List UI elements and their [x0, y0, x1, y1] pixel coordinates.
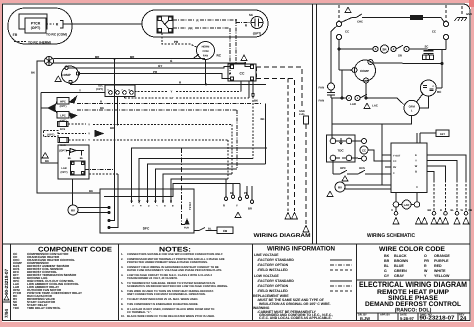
svg-text:Y: Y: [88, 138, 90, 142]
svg-text:PR: PR: [188, 27, 193, 31]
svg-text:Y OUT: Y OUT: [393, 154, 401, 157]
left rail: [41, 93, 58, 164]
svg-text:THIS COMPONENT IS ENERGIZED IN: THIS COMPONENT IS ENERGIZED IN HEATING M…: [127, 303, 199, 306]
svg-text:GY: GY: [170, 96, 174, 100]
svg-text:TDC: TDC: [337, 149, 344, 153]
svg-text:24: 24: [460, 316, 467, 322]
svg-text:R: R: [370, 61, 372, 64]
svg-text:GND: GND: [466, 13, 472, 16]
svg-text:RV: RV: [393, 166, 397, 169]
svg-text:5.: 5.: [121, 282, 124, 285]
svg-text:WIRE COLOR CODE: WIRE COLOR CODE: [379, 246, 446, 253]
svg-text:(OPT): (OPT): [60, 171, 67, 174]
table dividers: [118, 244, 120, 321]
node bracket: [60, 21, 63, 29]
svg-text:APP. BY: APP. BY: [380, 314, 390, 317]
TDC term2 down: [117, 97, 119, 125]
wire down from PR node: [229, 28, 231, 75]
svg-text:HPC: HPC: [340, 167, 346, 170]
RV feed from LAC box bottom: [72, 179, 74, 205]
svg-text:TDC: TDC: [13, 306, 20, 310]
svg-text:Y: Y: [415, 160, 417, 163]
wire R PR: [80, 74, 230, 79]
svg-text:(OPT): (OPT): [60, 105, 67, 108]
svg-text:BL: BL: [384, 264, 390, 268]
PTCR option oval: [8, 8, 72, 44]
svg-text:-FIELD INSTALLED: -FIELD INSTALLED: [257, 289, 288, 293]
svg-text:DCS: DCS: [60, 128, 66, 131]
RC run capacitor: [193, 42, 215, 85]
svg-text:Y: Y: [88, 123, 90, 127]
CC coil: [362, 139, 367, 144]
TDC term3 elbow to GY row: [124, 97, 126, 99]
CHC crankcase line: [341, 18, 352, 23]
svg-text:RC: RC: [217, 54, 222, 58]
field line voltage bold dashed A to GND lug: [256, 67, 306, 224]
board pin wires: [417, 155, 466, 212]
svg-text:BK: BK: [45, 159, 49, 163]
wiring information table: [253, 246, 352, 321]
svg-text:BR: BR: [110, 126, 114, 130]
svg-text:BK: BK: [31, 71, 35, 75]
svg-text:R: R: [223, 205, 225, 208]
svg-text:PR: PR: [424, 259, 429, 263]
wire OFM left BK down: [37, 61, 100, 193]
svg-text:BL: BL: [208, 228, 212, 231]
wire color code table: [357, 246, 471, 280]
svg-text:G: G: [384, 269, 387, 273]
svg-text:BK: BK: [254, 99, 258, 103]
field flag triangles: [393, 218, 469, 225]
svg-text:C: C: [350, 69, 352, 72]
PTCR box: [25, 18, 46, 33]
svg-text:HPC: HPC: [60, 101, 66, 104]
svg-text:3.: 3.: [121, 266, 124, 269]
DFT sensor: [417, 133, 436, 143]
field terminals right: [394, 212, 468, 216]
start relay option oval: [142, 10, 268, 75]
LPC box: [57, 110, 237, 119]
warning triangle top: [345, 7, 351, 12]
svg-text:SC: SC: [249, 13, 254, 17]
RC run cap right: [419, 80, 436, 108]
svg-text:90-23218-07: 90-23218-07: [420, 316, 455, 322]
svg-text:CONNECTORS SUITABLE FOR USE WI: CONNECTORS SUITABLE FOR USE WITH COPPER …: [127, 253, 223, 256]
svg-text:TSTAT: TSTAT: [189, 202, 192, 210]
svg-text:HCS: HCS: [359, 167, 365, 170]
svg-text:HERM: HERM: [202, 46, 210, 49]
wire OFM G to CC: [54, 63, 250, 67]
svg-text:CC: CC: [362, 148, 366, 152]
svg-text:BL: BL: [451, 209, 455, 212]
svg-text:PR: PR: [469, 209, 473, 212]
OFM fan motor: [37, 57, 250, 194]
svg-text:BR: BR: [384, 259, 390, 263]
warning triangle: [55, 76, 61, 82]
svg-text:DFC: DFC: [143, 227, 150, 231]
svg-text:RATED FUSE DISCONNECT. VOLTAGE: RATED FUSE DISCONNECT. VOLTAGE AND PHASE…: [127, 269, 222, 272]
svg-text:7.: 7.: [121, 298, 124, 301]
svg-text:TO RC (COM): TO RC (COM): [46, 33, 67, 37]
svg-text:BL: BL: [68, 157, 72, 160]
svg-text:WIRING SCHEMATIC: WIRING SCHEMATIC: [367, 233, 415, 239]
svg-text:GY: GY: [158, 64, 162, 68]
wire Y into TDC: [41, 92, 105, 94]
svg-text:LPC: LPC: [60, 115, 65, 118]
svg-text:4.: 4.: [121, 274, 124, 277]
wire PTCR lower dash: [14, 41, 27, 43]
svg-text:(OPT): (OPT): [253, 32, 261, 36]
table top line: [3, 243, 471, 245]
left margin rotated drawing number: [4, 269, 9, 318]
svg-text:BLUE: BLUE: [394, 264, 404, 268]
svg-text:Y: Y: [88, 132, 90, 136]
svg-text:LAR: LAR: [350, 102, 356, 106]
ground symbol: [455, 18, 468, 22]
svg-text:-FACTORY STANDARD: -FACTORY STANDARD: [257, 279, 294, 283]
svg-text:LOW VOLTAGE: LOW VOLTAGE: [254, 274, 279, 278]
wire down from R node: [235, 20, 237, 63]
svg-text:O: O: [424, 254, 427, 258]
SC start capacitor: [251, 17, 263, 29]
svg-text:LAR: LAR: [404, 204, 410, 207]
DFC board: [100, 189, 194, 233]
svg-text:PROTECTED UNDER PRIMARY SINGLE: PROTECTED UNDER PRIMARY SINGLE PHASE CON…: [127, 261, 208, 264]
svg-text:RED: RED: [434, 264, 442, 268]
drop to RC: [441, 50, 443, 89]
svg-text:R: R: [100, 100, 102, 104]
svg-text:TRANSFORMER 24 VOLT, 40 VA MIN: TRANSFORMER 24 VOLT, 40 VA MIN'D.: [127, 277, 178, 280]
L1 feed dashed: [338, 5, 340, 21]
svg-text:GRAY: GRAY: [394, 274, 405, 278]
svg-text:YELLOW: YELLOW: [434, 274, 450, 278]
svg-text:GREEN: GREEN: [394, 269, 407, 273]
svg-text:INSULATION AS ORIGINAL OR 105°: INSULATION AS ORIGINAL OR 105° C WIRE.: [259, 302, 331, 306]
svg-text:FR: FR: [13, 33, 18, 37]
wire dash PTCR to R: [46, 23, 54, 25]
CB circuit: [194, 227, 233, 234]
svg-text:GY: GY: [384, 274, 390, 278]
svg-text:W: W: [424, 269, 428, 273]
svg-text:BLACK WIRE FROM CC TO BE RELOC: BLACK WIRE FROM CC TO BE RELOCATED WHEN …: [127, 315, 215, 318]
svg-text:LAR: LAR: [61, 167, 66, 170]
RV right: [335, 182, 391, 192]
FAN branch: [327, 26, 404, 105]
svg-text:RV: RV: [71, 209, 75, 213]
svg-text:R: R: [424, 264, 427, 268]
SR relay box: [157, 16, 173, 33]
svg-text:PURPLE: PURPLE: [434, 259, 449, 263]
LAR outputs: [110, 59, 115, 221]
OPT dashed box + DAS: [44, 131, 229, 143]
svg-text:BL: BL: [80, 157, 84, 160]
svg-text:BK: BK: [384, 254, 390, 258]
LAR coil right: [393, 193, 420, 212]
svg-text:(OPT): (OPT): [31, 26, 41, 30]
CC contact right: [443, 21, 448, 26]
PTCR outer box: [19, 14, 47, 29]
CC contactor box: [228, 64, 256, 96]
svg-text:COM: COM: [202, 50, 208, 53]
wire SC to node: [236, 22, 251, 24]
RV reversing valve: [68, 205, 110, 215]
LAC LAR option box: [58, 59, 118, 229]
TDC right: [327, 97, 392, 185]
wire oval to center oval: [63, 23, 142, 25]
wire OFM BR to RC: [54, 58, 206, 60]
svg-text:SCHEMATICS ON INDOOR SECTION F: SCHEMATICS ON INDOOR SECTION FOR LOW VOL…: [127, 285, 228, 288]
svg-text:90-23218-07: 90-23218-07: [4, 269, 9, 295]
svg-text:WHITE: WHITE: [434, 269, 446, 273]
SC capacitor below row: [428, 50, 430, 51]
svg-text:8.: 8.: [121, 303, 124, 306]
svg-text:CC: CC: [240, 72, 245, 76]
warning triangle near CC: [241, 55, 247, 61]
svg-text:TIME DELAY CONTROL: TIME DELAY CONTROL: [27, 306, 61, 310]
Y OUT riser: [381, 124, 383, 185]
svg-text:FUR: FUR: [184, 227, 189, 230]
wire PR dash-dot: [173, 27, 186, 29]
OFM motor right: [332, 94, 423, 124]
TSTAT field wire: [182, 148, 190, 225]
svg-text:COMP: COMP: [360, 69, 369, 73]
svg-text:FAN: FAN: [319, 86, 325, 90]
svg-text:CHC: CHC: [357, 21, 363, 24]
wire R dash-dot: [173, 19, 194, 21]
svg-text:G: G: [147, 205, 150, 207]
TDC box top: [41, 85, 249, 163]
svg-text:PR: PR: [244, 192, 248, 195]
svg-text:Y: Y: [236, 205, 238, 208]
svg-text:FAN: FAN: [203, 55, 208, 58]
svg-text:9.: 9.: [121, 308, 124, 311]
svg-text:BK: BK: [89, 189, 93, 193]
svg-text:ORANGE: ORANGE: [434, 254, 450, 258]
CC contact left: [336, 21, 341, 26]
DFC board right: [391, 143, 427, 193]
field arrows: [285, 213, 309, 233]
svg-text:TO RC (HERM): TO RC (HERM): [28, 41, 51, 45]
L2 feed dashed: [445, 5, 447, 21]
svg-text:LAC: LAC: [372, 104, 378, 108]
svg-text:RV: RV: [338, 186, 342, 190]
svg-text:10.: 10.: [121, 315, 125, 318]
svg-text:(OPT): (OPT): [47, 133, 54, 136]
svg-text:Y: Y: [171, 90, 173, 94]
svg-text:BL: BL: [230, 192, 234, 195]
svg-text:1.: 1.: [121, 253, 124, 256]
title block: [359, 280, 467, 314]
svg-text:5-28-97: 5-28-97: [400, 316, 415, 321]
CC bottom stubs: [240, 81, 242, 88]
svg-text:C: C: [416, 186, 418, 189]
svg-text:6.: 6.: [121, 290, 124, 293]
svg-text:BR: BR: [248, 208, 252, 211]
CH heater box: [410, 15, 423, 20]
svg-text:BK: BK: [100, 106, 104, 110]
svg-text:PR: PR: [174, 40, 179, 44]
svg-text:(OPT): (OPT): [59, 149, 67, 153]
svg-text:BK: BK: [261, 117, 265, 121]
svg-text:DFT: DFT: [440, 133, 445, 136]
svg-text:2.: 2.: [121, 258, 124, 261]
svg-text:B.JW: B.JW: [360, 316, 370, 321]
svg-text:OFM: OFM: [409, 105, 416, 109]
svg-text:COMP: COMP: [61, 73, 70, 77]
svg-text:-FACTORY STANDARD: -FACTORY STANDARD: [257, 258, 294, 262]
svg-text:SC: SC: [425, 45, 429, 49]
junction dots: [114, 19, 267, 149]
svg-text:SR: SR: [398, 54, 402, 58]
DCS sensor box: [58, 122, 233, 127]
svg-text:B: B: [415, 171, 417, 174]
svg-text:-FACTORY OPTION: -FACTORY OPTION: [257, 284, 289, 288]
svg-text:BR: BR: [428, 209, 432, 212]
svg-text:WIRING DIAGRAM: WIRING DIAGRAM: [254, 233, 312, 239]
svg-text:CC: CC: [393, 160, 397, 163]
svg-text:WIRING INFORMATION: WIRING INFORMATION: [267, 246, 335, 253]
component code table: [13, 247, 113, 310]
wire fan bundle runs: [104, 96, 266, 203]
svg-text:E: E: [415, 154, 417, 157]
left margin strip: [10, 244, 12, 321]
svg-text:PTCR: PTCR: [31, 22, 41, 26]
start circuit row: [339, 40, 446, 88]
COMP right: [338, 48, 442, 98]
section divider vertical between diagram and schematic: [312, 4, 314, 244]
pin arrowheads: [130, 201, 172, 204]
wire C GY: [68, 67, 230, 68]
svg-text:FAN: FAN: [319, 99, 325, 103]
svg-text:-FIELD INSTALLED: -FIELD INSTALLED: [257, 268, 288, 272]
svg-text:R: R: [440, 209, 442, 212]
svg-text:TO HEAT PUMP INDICATOR 25 VA.: TO HEAT PUMP INDICATOR 25 VA. MAX. WHEN …: [127, 298, 198, 301]
svg-text:C: C: [393, 172, 395, 175]
svg-text:OMIT CONNECTION FOR MOST ECONO: OMIT CONNECTION FOR MOST ECONOMICAL OPER…: [127, 293, 206, 296]
HPC HCS row: [333, 161, 391, 174]
svg-text:BROWN: BROWN: [394, 259, 408, 263]
notes table: [121, 247, 228, 319]
COMP compressor: [62, 66, 267, 84]
svg-text:(OPT): (OPT): [96, 88, 103, 91]
svg-text:O: O: [391, 209, 393, 212]
field lv terminals: [224, 179, 253, 204]
wire S R: [71, 83, 267, 86]
svg-text:7/94: 7/94: [4, 309, 9, 318]
svg-text:C.E.C. AND LOCAL CODES AS APPL: C.E.C. AND LOCAL CODES AS APPLICABLE.: [259, 316, 332, 320]
svg-text:BLACK: BLACK: [394, 254, 407, 258]
GND feed dashed: [461, 6, 463, 16]
svg-text:LINE VOLTAGE: LINE VOLTAGE: [254, 253, 279, 257]
wire SR box to RC dashed: [162, 33, 198, 48]
svg-text:ELECTRICAL WIRING DIAGRAM: ELECTRICAL WIRING DIAGRAM: [359, 280, 467, 289]
svg-text:CC TERMINAL "L".: CC TERMINAL "L".: [127, 311, 152, 314]
svg-text:Y: Y: [79, 89, 81, 93]
HPC box: [41, 97, 262, 114]
svg-text:-FACTORY OPTION: -FACTORY OPTION: [257, 263, 289, 267]
